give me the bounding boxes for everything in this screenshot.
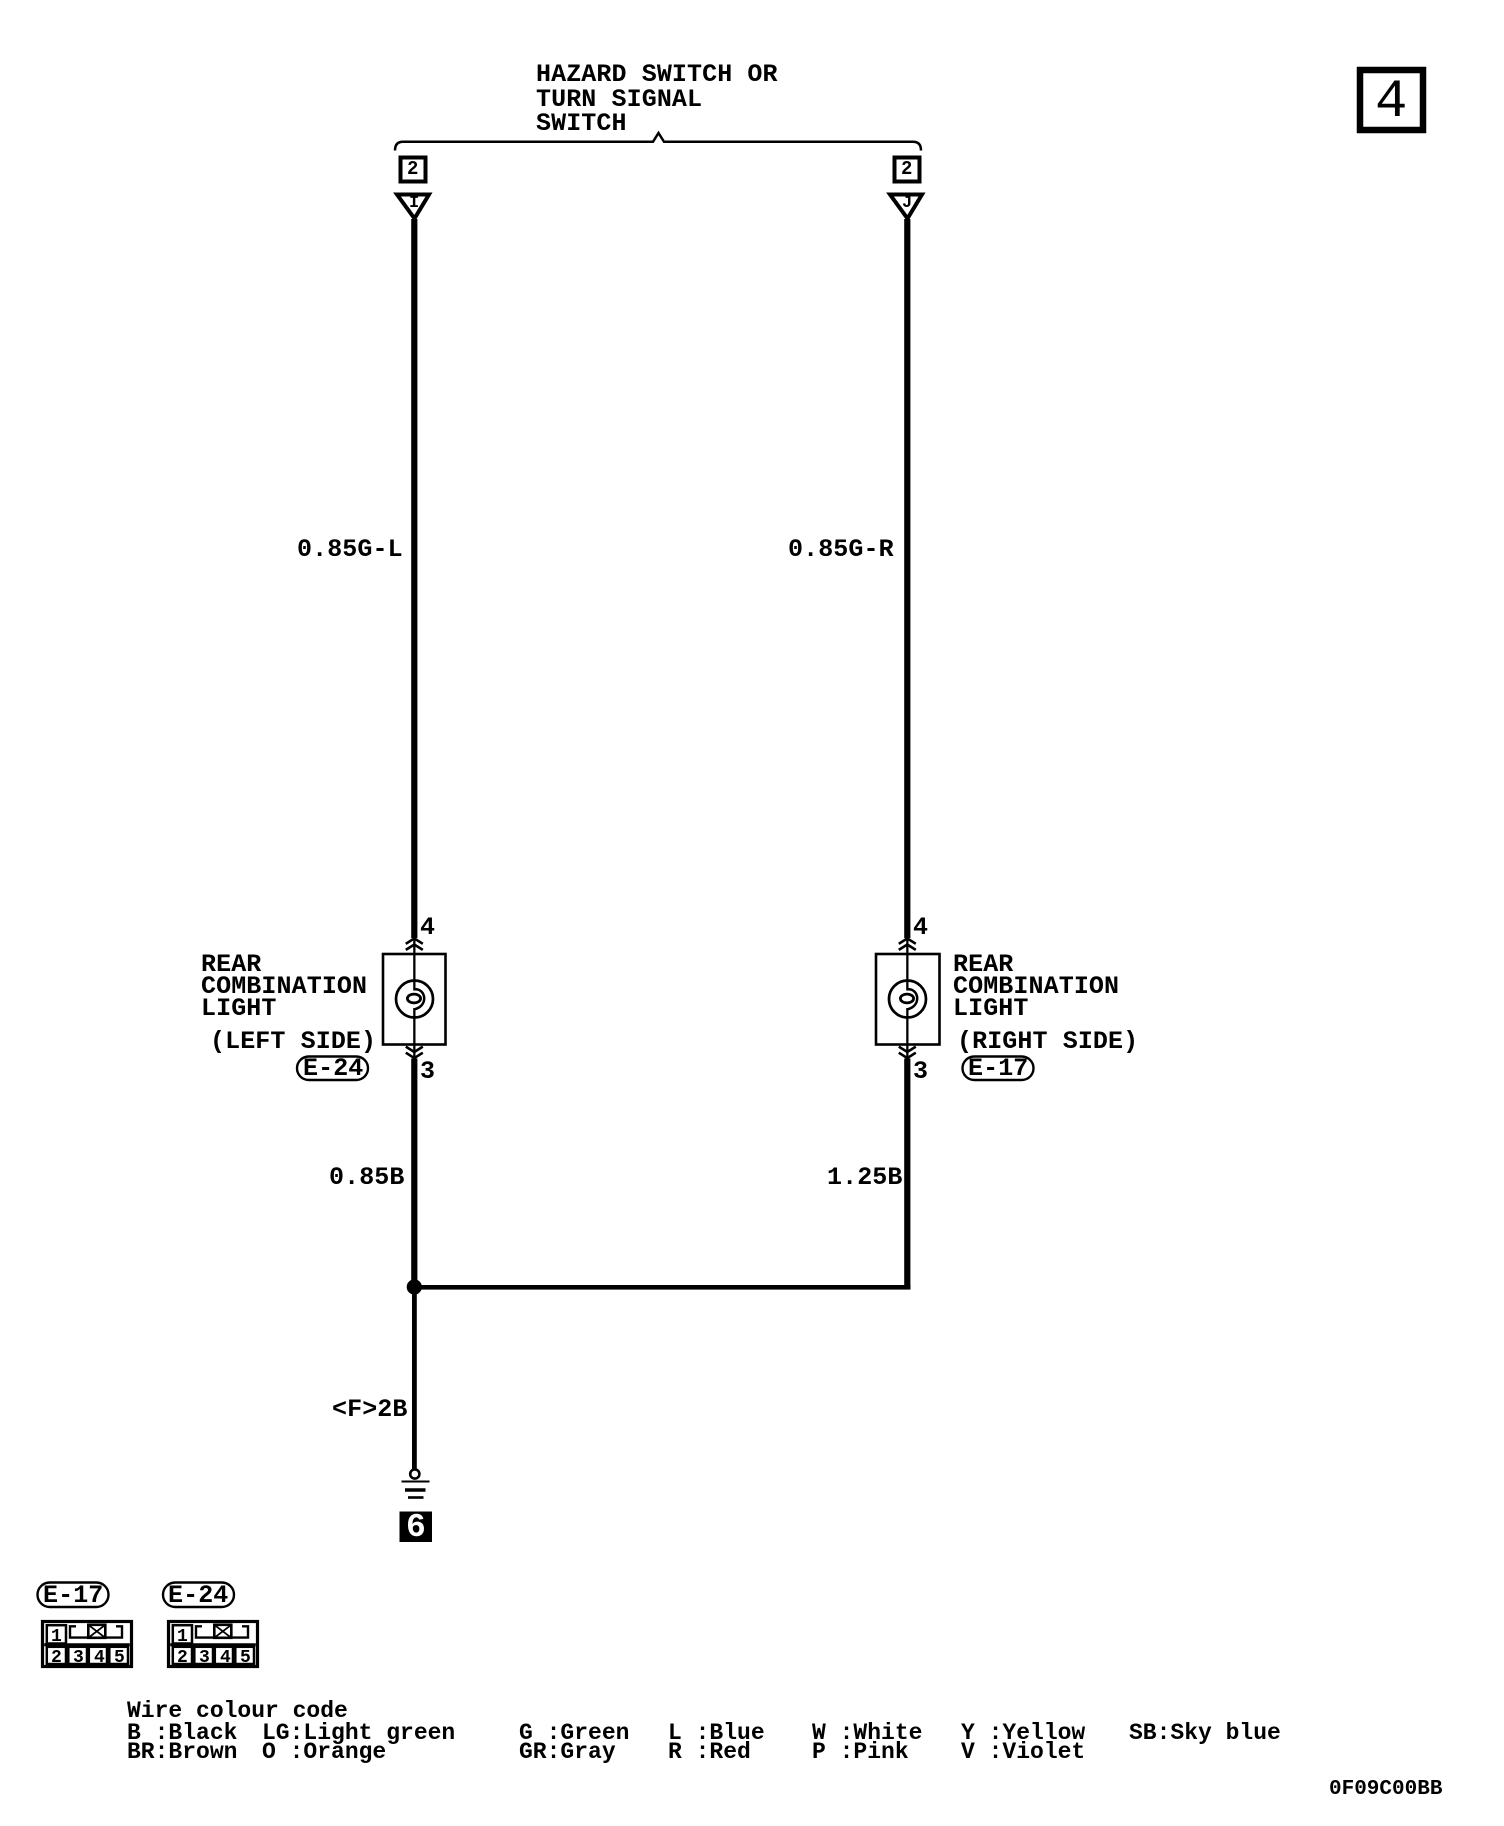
chevrons pin 4 (left lamp, pointing up) xyxy=(406,938,423,950)
pin 3 (connector E-17) xyxy=(73,1647,84,1670)
legend entry SB sky blue xyxy=(1129,1722,1281,1745)
E-17 ref text xyxy=(968,1056,1028,1081)
bulb symbol (left): circle + filament xyxy=(396,981,433,1018)
ground symbol xyxy=(410,1469,419,1478)
legend entry G green xyxy=(519,1722,629,1745)
E-24 ref text xyxy=(303,1056,363,1081)
triangle terminal I (left) xyxy=(397,195,429,219)
legend entry GR gray xyxy=(519,1741,616,1764)
legend entry L blue xyxy=(668,1722,765,1745)
brace (hazard/turn switch bracket) xyxy=(395,133,921,151)
connector box 2 (left) xyxy=(401,158,426,182)
pin 2 (connector E-24) xyxy=(177,1647,188,1670)
wire 0.85B (left vertical, lamp to junction) xyxy=(411,1059,417,1290)
right lamp label: rear combination light xyxy=(953,954,1119,1019)
ground ref 6 black box xyxy=(400,1512,433,1543)
wire label 0.85G-R xyxy=(788,537,894,562)
pin 4 (connector E-24) xyxy=(220,1647,231,1670)
wire segment above bulb (left lamp) xyxy=(413,937,415,991)
wire segment above bulb (right lamp) xyxy=(906,937,908,991)
legend entry W white xyxy=(812,1722,922,1745)
wire label 0.85B xyxy=(329,1165,405,1190)
bottom stadium text E-24 xyxy=(168,1583,228,1608)
wire segment below bulb (left lamp) xyxy=(413,1008,415,1060)
wire segment below bulb (right lamp) xyxy=(906,1008,908,1060)
page number 4 box (top right) xyxy=(1360,70,1423,130)
legend entry O orange xyxy=(262,1741,386,1764)
drawing code xyxy=(1329,1778,1442,1801)
pin number 4 (left) xyxy=(420,915,435,940)
wire 0.85G-R (right vertical, triangle to lamp) xyxy=(904,219,910,938)
pin number 3 (left) xyxy=(420,1059,435,1084)
legend entry LG light green xyxy=(262,1722,455,1745)
bottom stadium text E-17 xyxy=(43,1583,103,1608)
pin number 3 (right) xyxy=(913,1059,928,1084)
pin 3 (connector E-24) xyxy=(199,1647,210,1670)
wire label 1.25B xyxy=(827,1165,903,1190)
chevrons pin 3 (right lamp, pointing down) xyxy=(899,1047,916,1059)
wire 0.85G-L (left vertical, triangle to lamp) xyxy=(411,219,417,938)
pin 1 (connector E-24) xyxy=(177,1626,188,1649)
legend entry Y yellow xyxy=(961,1722,1085,1745)
pin label 2 (left) xyxy=(407,157,419,182)
left lamp label: (left side) xyxy=(210,1029,376,1054)
terminal letter I xyxy=(409,191,419,216)
connector pinout E-17 xyxy=(43,1622,132,1667)
pin 1 (connector E-17) xyxy=(51,1626,62,1649)
horizontal bus wire xyxy=(412,1285,911,1290)
pin label 2 (right) xyxy=(901,157,913,182)
right lamp label: (right side) xyxy=(957,1029,1138,1054)
stadium E-24 (left lamp ref) xyxy=(297,1057,368,1081)
chevrons pin 3 (left lamp, pointing down) xyxy=(406,1047,423,1059)
legend entry R red xyxy=(668,1741,751,1764)
wire label (F)2B xyxy=(332,1397,408,1422)
rear combination light box (right) xyxy=(876,954,940,1045)
terminal letter J xyxy=(902,191,912,216)
stadium E-24 (bottom legend) xyxy=(163,1583,234,1608)
wire 1.25B (right vertical, lamp to junction bus) xyxy=(904,1059,910,1290)
page number 4 xyxy=(1375,76,1408,130)
triangle terminal J (right) xyxy=(890,195,922,219)
legend title: wire colour code xyxy=(127,1700,348,1723)
legend entry P pink xyxy=(812,1741,909,1764)
stadium E-17 (bottom legend) xyxy=(38,1583,109,1608)
rear combination light box (left) xyxy=(383,954,446,1045)
stadium E-17 (right lamp ref) xyxy=(963,1057,1034,1081)
connector pinout E-24 xyxy=(169,1622,258,1667)
wire (F)2B (junction to ground) xyxy=(412,1287,417,1469)
connector box 2 (right) xyxy=(895,158,920,182)
legend entry B black xyxy=(127,1722,237,1745)
wire label 0.85G-L xyxy=(297,537,403,562)
pin 5 (connector E-24) xyxy=(240,1647,251,1670)
junction dot xyxy=(407,1279,422,1294)
left lamp label: rear combination light xyxy=(201,954,367,1019)
ground ref number 6 xyxy=(406,1511,426,1544)
chevrons pin 4 (right lamp, pointing up) xyxy=(899,938,916,950)
pin number 4 (right) xyxy=(913,915,928,940)
pin 4 (connector E-17) xyxy=(94,1647,105,1670)
pin 2 (connector E-17) xyxy=(51,1647,62,1670)
bulb symbol (right): circle + filament xyxy=(889,981,926,1018)
legend entry V violet xyxy=(961,1741,1085,1764)
pin 5 (connector E-17) xyxy=(114,1647,125,1670)
header label: hazard switch or turn signal switch xyxy=(536,63,778,137)
legend entry BR brown xyxy=(127,1741,237,1764)
